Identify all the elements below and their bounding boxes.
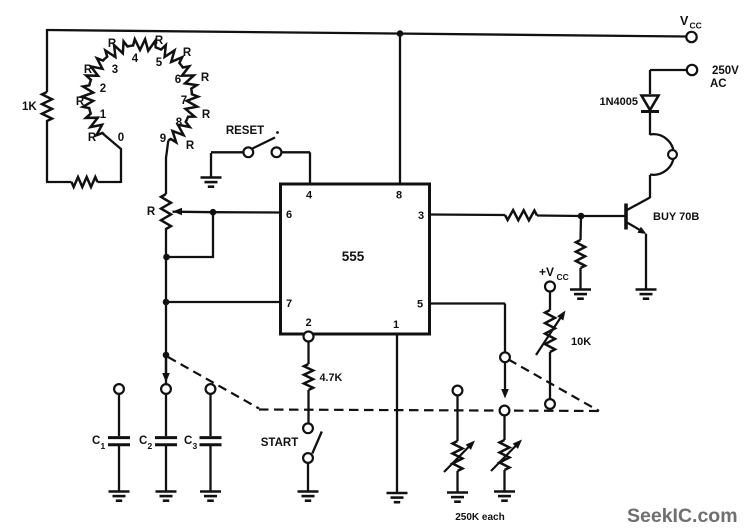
resistor base series xyxy=(505,210,537,220)
label 250K each xyxy=(455,512,504,523)
svg-text:C: C xyxy=(184,435,192,447)
label 555 xyxy=(342,249,365,264)
ground (reset) xyxy=(201,153,222,187)
switch RESET lever xyxy=(253,138,276,149)
node C3 contact xyxy=(206,384,216,394)
svg-text:555: 555 xyxy=(342,249,365,264)
wire top Vcc rail xyxy=(47,30,686,37)
svg-text:2: 2 xyxy=(305,317,311,329)
node 250K-a contact xyxy=(453,386,463,396)
node 250V AC terminal xyxy=(687,65,697,75)
svg-text:C: C xyxy=(92,435,100,447)
wire C3 stem lower xyxy=(209,446,211,491)
wire pin 1 xyxy=(396,334,398,493)
pin 8 label xyxy=(396,190,402,202)
wire gang link diagonal left xyxy=(168,357,259,409)
label C1 xyxy=(92,435,106,451)
svg-text:START: START xyxy=(261,437,298,449)
resistor 4.7K xyxy=(304,364,313,390)
wire left rail upper xyxy=(46,29,48,92)
label R (rotary 0-1) xyxy=(88,132,97,144)
svg-text:R: R xyxy=(84,64,93,76)
label RESET xyxy=(226,125,279,137)
pin 3 label xyxy=(418,210,424,222)
svg-text:7: 7 xyxy=(181,95,187,107)
wire C1 stem lower xyxy=(118,446,120,491)
svg-text:2: 2 xyxy=(148,441,153,451)
ground (start) xyxy=(298,492,319,501)
arrow 10K xyxy=(536,311,566,356)
svg-text:CC: CC xyxy=(690,21,702,31)
wire gang link diagonal right xyxy=(509,360,600,412)
ground (C3) xyxy=(200,492,221,501)
arrow 250K-b xyxy=(491,440,522,472)
pin 2 label xyxy=(305,317,311,329)
svg-text:250K each: 250K each xyxy=(455,512,504,523)
label BUY 70B xyxy=(653,211,699,223)
junction pin-7 node xyxy=(163,299,170,306)
rheostat 250K-b xyxy=(500,440,510,470)
ground (C1) xyxy=(109,492,130,501)
svg-text:8: 8 xyxy=(396,190,402,202)
resistor R (rotary tap 6-7) xyxy=(181,65,197,91)
svg-text:R: R xyxy=(186,140,195,152)
lamp load xyxy=(650,134,677,175)
junction pot bottom xyxy=(163,254,170,261)
capacitor C1 xyxy=(108,438,130,445)
resistor 1K xyxy=(42,92,52,121)
wire start to ground xyxy=(307,463,309,491)
rheostat 250K-a xyxy=(453,441,463,471)
resistor base-ground xyxy=(576,240,585,268)
svg-text:3: 3 xyxy=(418,210,424,222)
ground (250K-a) xyxy=(447,493,468,502)
ground (base resistor) xyxy=(570,290,591,299)
label 250V AC xyxy=(710,65,739,90)
potentiometer R (timing) xyxy=(161,194,171,229)
switch START contact top xyxy=(303,423,313,433)
label R (pot) xyxy=(147,206,156,218)
switch RESET contact right xyxy=(272,147,282,157)
label 1N4005 xyxy=(599,96,638,108)
label Vcc xyxy=(680,14,702,31)
wire main column xyxy=(165,228,167,384)
svg-text:10K: 10K xyxy=(571,336,591,348)
wire tap-0 lead xyxy=(105,135,122,183)
pin 4 label xyxy=(306,190,313,202)
label SeekIC.com watermark xyxy=(627,505,738,527)
label +Vcc xyxy=(539,265,569,282)
ground (C2) xyxy=(156,492,177,501)
svg-text:3: 3 xyxy=(112,64,118,76)
wire C3 stem upper xyxy=(209,394,211,436)
junction wiper node xyxy=(210,209,217,216)
label START xyxy=(261,437,298,449)
wire base node to base xyxy=(581,215,625,217)
svg-text:SeekIC.com: SeekIC.com xyxy=(627,505,738,527)
wire left rail lower xyxy=(46,120,48,182)
node C2 contact xyxy=(161,384,171,394)
resistor R (rotary tap 1-2) xyxy=(82,83,93,111)
label C3 xyxy=(184,435,198,451)
wire pin 8 xyxy=(399,34,401,184)
wire 250K-b to ground xyxy=(503,470,505,491)
wire diode to AC xyxy=(650,70,687,94)
label 1K xyxy=(22,101,37,113)
capacitor C2 xyxy=(155,438,177,445)
label R (rotary 4-5) xyxy=(155,35,164,47)
wire pin 2 to resistor xyxy=(307,341,309,364)
label R (rotary 7-8) xyxy=(202,109,211,121)
label R (rotary 2-3) xyxy=(84,64,93,76)
wire emitter down xyxy=(645,234,647,289)
svg-text:0: 0 xyxy=(118,132,124,144)
svg-text:V: V xyxy=(680,14,689,28)
svg-text:R: R xyxy=(201,72,210,84)
svg-text:5: 5 xyxy=(417,299,423,311)
wire 250K-a to ground xyxy=(456,471,458,492)
wiper arrow (cap selector) xyxy=(162,355,170,383)
label C2 xyxy=(139,435,153,451)
switch START contact bottom xyxy=(303,453,313,463)
svg-text:9: 9 xyxy=(160,133,166,145)
label R (rotary 6-7) xyxy=(201,72,210,84)
svg-text:4: 4 xyxy=(132,53,139,65)
wire pin 5 xyxy=(429,304,505,353)
svg-text:AC: AC xyxy=(710,78,727,90)
node Vcc terminal xyxy=(686,32,696,42)
pin 1 label xyxy=(393,319,399,331)
svg-text:R: R xyxy=(147,206,156,218)
diode D1 1N4005 xyxy=(641,96,659,112)
svg-text:1N4005: 1N4005 xyxy=(599,96,638,108)
wire bottom-left rail xyxy=(46,181,121,183)
label 10K xyxy=(571,336,591,348)
resistor R (rotary tap 7-8) xyxy=(186,92,199,120)
node tap 9 label xyxy=(160,133,166,145)
rheostat 10K xyxy=(545,310,555,352)
junction selector node xyxy=(163,352,170,359)
wire base node down xyxy=(579,216,582,240)
svg-text:1: 1 xyxy=(100,109,107,121)
node tap 2 label xyxy=(100,83,106,95)
op-amp U1 555 box xyxy=(281,184,430,334)
resistor R (rotary tap 4-5) xyxy=(130,39,158,51)
svg-text:1K: 1K xyxy=(22,101,37,113)
wire 250K-a stem xyxy=(456,395,458,441)
svg-text:6: 6 xyxy=(175,74,181,86)
resistor R (rotary tap 0-1) xyxy=(86,111,105,136)
wire wiper return xyxy=(166,212,213,257)
wire tap-9 lead xyxy=(166,141,168,195)
resistor series (bottom-left) xyxy=(72,177,98,187)
wire 250K-b stem xyxy=(503,415,505,440)
resistor R (rotary tap 5-6) xyxy=(158,45,182,65)
svg-text:CC: CC xyxy=(557,272,569,282)
svg-text:1: 1 xyxy=(393,319,399,331)
pin 5 label xyxy=(417,299,423,311)
ground (pin 1) xyxy=(387,493,408,502)
node tap 3 label xyxy=(112,64,118,76)
ground (emitter) xyxy=(636,290,657,299)
junction pin-8 rail dot xyxy=(397,30,404,37)
wire resistor to base node xyxy=(537,214,581,217)
node +Vcc terminal xyxy=(545,282,555,292)
switch RESET contact left xyxy=(243,147,253,157)
node selector contact (pin5) xyxy=(500,352,510,362)
arrow 250K-a xyxy=(444,441,475,473)
svg-text:R: R xyxy=(76,96,85,108)
svg-text:2: 2 xyxy=(100,83,106,95)
node tap 5 label xyxy=(156,57,163,69)
wire pin 7 xyxy=(166,301,280,303)
wiper arrow of pot xyxy=(173,208,214,215)
junction base node xyxy=(578,213,585,220)
label 4.7K xyxy=(320,372,343,384)
wire lamp to diode xyxy=(649,112,651,135)
wiper arrow (250K selector) xyxy=(501,362,509,399)
node tap 6 label xyxy=(175,74,181,86)
switch START lever xyxy=(312,432,322,454)
wire wiper to pin 6 xyxy=(213,211,280,214)
svg-text:R: R xyxy=(155,35,164,47)
svg-text:250V: 250V xyxy=(712,65,739,77)
wire to ground (base) xyxy=(579,268,581,289)
label R (rotary 3-4) xyxy=(108,38,117,50)
wire +Vcc to 10K xyxy=(549,291,551,310)
svg-text:7: 7 xyxy=(286,298,292,310)
resistor R (rotary tap 3-4) xyxy=(105,41,130,58)
node pin-2 contact xyxy=(304,332,314,342)
label R (rotary 1-2) xyxy=(76,96,85,108)
svg-text:8: 8 xyxy=(176,117,183,129)
capacitor C3 xyxy=(200,438,222,445)
node tap 8 label xyxy=(176,117,183,129)
wire pin 3 xyxy=(429,213,505,216)
wire gang link horizontal xyxy=(259,410,599,412)
svg-text:4: 4 xyxy=(306,190,313,202)
transistor Q1 BUY 70B xyxy=(626,198,650,235)
label R (rotary 5-6) xyxy=(183,47,192,59)
pin 6 label xyxy=(286,209,292,221)
svg-text:BUY 70B: BUY 70B xyxy=(653,211,699,223)
wire C2 stem upper xyxy=(165,394,167,436)
node 250K-b contact xyxy=(500,406,510,416)
svg-text:C: C xyxy=(139,435,147,447)
svg-text:5: 5 xyxy=(156,57,163,69)
node tap 7 label xyxy=(181,95,187,107)
node C1 contact xyxy=(114,384,124,394)
node tap 1 label xyxy=(100,109,107,121)
node tap 0 label xyxy=(118,132,124,144)
svg-text:3: 3 xyxy=(193,441,198,451)
ground (250K-b) xyxy=(494,492,515,501)
svg-text:RESET: RESET xyxy=(226,125,264,137)
svg-text:R: R xyxy=(108,38,117,50)
wire C1 stem upper xyxy=(118,394,120,436)
wire reset left xyxy=(211,151,244,153)
svg-text:1: 1 xyxy=(101,441,106,451)
svg-text:6: 6 xyxy=(286,209,292,221)
label R (rotary 8-9) xyxy=(186,140,195,152)
wire 10K lower xyxy=(549,352,551,399)
pin 7 label xyxy=(286,298,292,310)
node tap 4 label xyxy=(132,53,139,65)
node 10K contact xyxy=(545,399,555,409)
svg-text:+V: +V xyxy=(539,265,554,279)
svg-text:R: R xyxy=(88,132,97,144)
wire resistor to start xyxy=(307,390,309,424)
svg-text:R: R xyxy=(183,47,192,59)
svg-text:R: R xyxy=(202,109,211,121)
wire reset to pin 4 xyxy=(281,152,310,185)
resistor R (rotary tap 8-9) xyxy=(168,119,189,142)
wire collector up xyxy=(649,175,651,198)
svg-text:4.7K: 4.7K xyxy=(320,372,343,384)
wire C2 stem lower xyxy=(165,446,167,491)
resistor R (rotary tap 2-3) xyxy=(86,58,105,82)
